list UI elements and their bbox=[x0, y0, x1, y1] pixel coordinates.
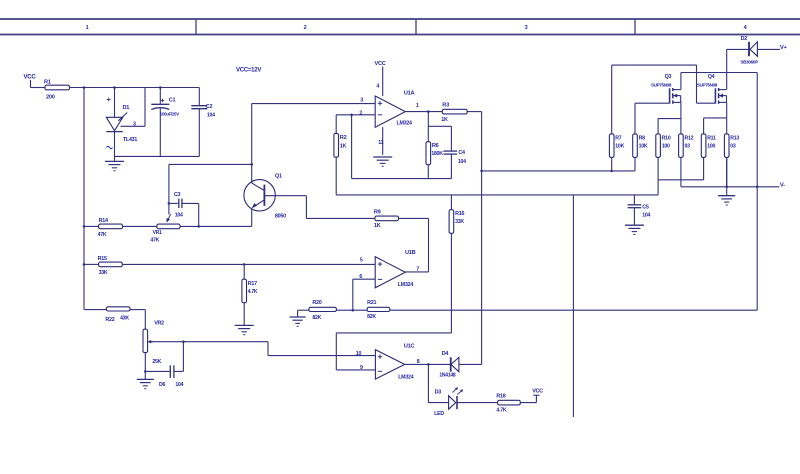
svg-text:D1: D1 bbox=[123, 105, 130, 111]
wire bbox=[428, 125, 451, 127]
svg-text:R3: R3 bbox=[442, 102, 449, 108]
wire bbox=[267, 342, 269, 356]
svg-text:LM324: LM324 bbox=[398, 282, 414, 288]
svg-text:1K: 1K bbox=[340, 144, 347, 150]
svg-text:7: 7 bbox=[416, 266, 419, 272]
transistor Q1 8050 bbox=[244, 174, 286, 220]
resistor R16 bbox=[449, 195, 464, 333]
svg-text:R1: R1 bbox=[44, 80, 51, 86]
zener reference D1 TL431 bbox=[106, 98, 137, 149]
svg-text:D2: D2 bbox=[741, 36, 748, 42]
wire bbox=[390, 309, 757, 311]
wire bbox=[399, 217, 429, 219]
svg-text:47K: 47K bbox=[98, 232, 107, 238]
resistor R13 bbox=[724, 134, 739, 158]
wire bbox=[681, 186, 780, 188]
wire bbox=[634, 103, 636, 134]
svg-text:R6: R6 bbox=[432, 143, 439, 149]
wire bbox=[405, 363, 451, 365]
wire bbox=[680, 73, 682, 90]
wire bbox=[123, 225, 157, 227]
svg-text:10K: 10K bbox=[639, 144, 648, 150]
wire bbox=[680, 157, 682, 186]
junction bbox=[610, 170, 613, 173]
wire bbox=[658, 118, 681, 120]
svg-text:100uF/25V: 100uF/25V bbox=[160, 112, 179, 117]
svg-text:R18: R18 bbox=[496, 394, 505, 400]
svg-text:VCC: VCC bbox=[532, 389, 543, 395]
svg-text:VCC=12V: VCC=12V bbox=[236, 67, 261, 73]
wire bbox=[405, 271, 428, 273]
resistor R9 bbox=[374, 209, 399, 229]
svg-text:U1C: U1C bbox=[404, 343, 415, 349]
wire bbox=[428, 218, 430, 272]
wire bbox=[353, 278, 375, 280]
wire bbox=[336, 369, 375, 371]
svg-text:LM324: LM324 bbox=[397, 121, 413, 127]
frame divider tick 3 bbox=[634, 19, 636, 35]
wire bbox=[657, 119, 659, 134]
wire bbox=[572, 195, 574, 417]
frame divider tick 1 bbox=[195, 19, 197, 35]
svg-text:U1A: U1A bbox=[404, 90, 415, 96]
svg-text:V+: V+ bbox=[780, 45, 788, 51]
wire bbox=[726, 49, 728, 89]
wire bbox=[756, 187, 758, 310]
resistor R7 bbox=[609, 134, 624, 158]
wire bbox=[144, 310, 146, 330]
wire bbox=[657, 180, 659, 195]
wire bbox=[335, 333, 337, 370]
resistor R15 bbox=[98, 256, 123, 276]
wire bbox=[336, 309, 367, 311]
wire bbox=[697, 102, 716, 104]
junction bbox=[159, 86, 162, 89]
svg-text:VR2: VR2 bbox=[154, 321, 164, 327]
junction bbox=[144, 370, 147, 373]
svg-text:R22: R22 bbox=[105, 317, 114, 323]
junction bbox=[725, 186, 728, 189]
svg-text:104: 104 bbox=[175, 382, 183, 388]
wire bbox=[84, 309, 106, 311]
wire bbox=[83, 88, 85, 310]
junction bbox=[480, 170, 483, 173]
svg-text:25K: 25K bbox=[152, 359, 161, 365]
svg-text:47K: 47K bbox=[150, 237, 159, 243]
svg-text:1K: 1K bbox=[374, 223, 381, 229]
svg-text:LM324: LM324 bbox=[398, 375, 414, 381]
svg-text:C5: C5 bbox=[642, 204, 649, 210]
wire bbox=[180, 225, 252, 227]
wire bbox=[336, 114, 375, 116]
potentiometer VR2 bbox=[143, 321, 164, 366]
junction bbox=[182, 340, 185, 343]
svg-text:C3: C3 bbox=[174, 192, 181, 198]
wire bbox=[182, 342, 184, 372]
wire bbox=[681, 72, 757, 74]
resistor R18 bbox=[496, 394, 520, 414]
svg-text:1N4148: 1N4148 bbox=[439, 373, 455, 379]
svg-text:3: 3 bbox=[525, 25, 528, 31]
ground bbox=[373, 156, 392, 158]
svg-text:104: 104 bbox=[642, 212, 650, 218]
wire bbox=[114, 88, 116, 118]
svg-text:C4: C4 bbox=[458, 150, 465, 156]
svg-text:VCC: VCC bbox=[375, 61, 386, 67]
resistor R22 bbox=[105, 307, 130, 323]
junction bbox=[83, 86, 86, 89]
wire bbox=[144, 88, 146, 127]
junction bbox=[756, 186, 759, 189]
svg-text:D6: D6 bbox=[159, 382, 165, 388]
junction bbox=[427, 110, 430, 113]
node VCC (input) bbox=[24, 75, 37, 88]
wire bbox=[611, 157, 613, 171]
svg-text:4.7K: 4.7K bbox=[248, 289, 258, 295]
svg-text:R21: R21 bbox=[367, 300, 376, 306]
svg-text:1K: 1K bbox=[441, 117, 448, 123]
capacitor C1 bbox=[151, 88, 179, 157]
svg-text:03: 03 bbox=[730, 144, 736, 150]
op-amp U1C LM324 bbox=[375, 343, 414, 380]
LED D3 bbox=[434, 387, 463, 417]
svg-text:SB3060P: SB3060P bbox=[740, 60, 758, 65]
svg-text:Q4: Q4 bbox=[708, 74, 715, 80]
diode D2 SB3060P bbox=[740, 36, 758, 65]
svg-text:82K: 82K bbox=[367, 314, 376, 320]
svg-text:D4: D4 bbox=[442, 351, 449, 357]
wire bbox=[251, 104, 253, 183]
wire bbox=[611, 65, 613, 134]
resistor R1 bbox=[44, 80, 70, 101]
wire bbox=[757, 48, 780, 50]
wire bbox=[382, 127, 384, 155]
svg-text:R16: R16 bbox=[455, 211, 464, 217]
ground bbox=[625, 224, 644, 226]
wire bbox=[144, 353, 146, 372]
resistor R11 bbox=[701, 134, 716, 158]
svg-text:104: 104 bbox=[458, 159, 466, 165]
resistor R17 bbox=[242, 264, 258, 325]
svg-text:104: 104 bbox=[207, 112, 215, 118]
svg-text:10: 10 bbox=[356, 351, 362, 357]
svg-text:R11: R11 bbox=[707, 135, 716, 141]
resistor R12 bbox=[679, 134, 694, 158]
frame divider tick 2 bbox=[415, 19, 417, 35]
svg-text:R17: R17 bbox=[248, 281, 257, 287]
wire bbox=[121, 125, 146, 127]
svg-text:33K: 33K bbox=[455, 219, 464, 225]
svg-text:8050: 8050 bbox=[275, 213, 286, 219]
junction bbox=[250, 163, 253, 166]
svg-text:3: 3 bbox=[360, 97, 363, 103]
capacitor C4 bbox=[443, 126, 466, 178]
svg-text:2: 2 bbox=[304, 25, 307, 31]
svg-text:V-: V- bbox=[780, 182, 785, 188]
wire bbox=[481, 112, 483, 365]
svg-text:R13: R13 bbox=[730, 135, 739, 141]
resistor R10 bbox=[656, 134, 671, 158]
border frame top line bbox=[0, 18, 800, 20]
wire bbox=[727, 48, 749, 50]
wire bbox=[635, 102, 669, 104]
svg-text:VR1: VR1 bbox=[153, 230, 162, 236]
svg-text:43K: 43K bbox=[120, 316, 129, 322]
wire bbox=[459, 363, 482, 365]
diode D4 1N4148 bbox=[439, 351, 459, 379]
wire bbox=[150, 341, 269, 343]
junction bbox=[197, 225, 200, 228]
wire bbox=[634, 157, 636, 171]
ground bbox=[137, 371, 154, 388]
wire bbox=[252, 103, 376, 105]
wire bbox=[84, 225, 99, 227]
wire bbox=[680, 102, 682, 133]
wire bbox=[298, 309, 309, 311]
wire bbox=[145, 370, 170, 372]
svg-text:U1B: U1B bbox=[405, 250, 416, 256]
resistor R14 bbox=[98, 218, 123, 238]
svg-text:4: 4 bbox=[376, 84, 379, 90]
wire bbox=[726, 157, 728, 186]
wire bbox=[122, 263, 375, 265]
svg-text:Q3: Q3 bbox=[665, 74, 672, 80]
wire bbox=[306, 217, 375, 219]
capacitor C2 bbox=[191, 88, 215, 157]
svg-text:SUP75N08: SUP75N08 bbox=[697, 82, 718, 87]
svg-text:104: 104 bbox=[175, 212, 183, 218]
svg-text:82K: 82K bbox=[312, 315, 321, 321]
junction bbox=[427, 363, 430, 366]
resistor R8 bbox=[633, 134, 648, 158]
wire bbox=[305, 196, 307, 219]
svg-text:D3: D3 bbox=[435, 390, 442, 396]
resistor R20 bbox=[309, 300, 337, 321]
svg-text:VCC: VCC bbox=[24, 75, 37, 81]
svg-text:10K: 10K bbox=[615, 144, 624, 150]
resistor R2 bbox=[334, 115, 347, 195]
wire bbox=[84, 263, 99, 265]
wire bbox=[657, 157, 659, 179]
svg-text:9: 9 bbox=[360, 365, 363, 371]
wire bbox=[520, 402, 536, 404]
junction bbox=[83, 263, 86, 266]
border frame inner line bbox=[0, 34, 800, 36]
svg-text:1: 1 bbox=[86, 25, 89, 31]
svg-text:4.7K: 4.7K bbox=[496, 408, 506, 414]
node VCC (U1A pin4) bbox=[375, 61, 386, 96]
svg-text:R12: R12 bbox=[685, 135, 694, 141]
wire bbox=[427, 364, 429, 402]
wire bbox=[70, 87, 200, 89]
svg-text:R2: R2 bbox=[340, 135, 347, 141]
ground bbox=[718, 187, 735, 205]
svg-text:TL431: TL431 bbox=[123, 137, 137, 143]
svg-text:R9: R9 bbox=[374, 209, 381, 215]
wiper of VR1 bbox=[167, 203, 171, 222]
wire bbox=[756, 73, 758, 187]
svg-text:180K: 180K bbox=[431, 151, 443, 157]
svg-text:03: 03 bbox=[685, 144, 691, 150]
svg-text:R7: R7 bbox=[615, 135, 621, 141]
MOSFET Q4 SUP75N08 bbox=[697, 74, 727, 104]
wire bbox=[726, 102, 728, 186]
wire bbox=[31, 87, 46, 89]
potentiometer VR1 bbox=[150, 224, 180, 243]
ground bbox=[235, 324, 254, 326]
svg-text:C1: C1 bbox=[169, 98, 176, 104]
svg-text:200: 200 bbox=[46, 95, 55, 101]
svg-text:33K: 33K bbox=[99, 270, 108, 276]
junction bbox=[168, 202, 171, 205]
resistor R6 bbox=[426, 126, 443, 178]
wire bbox=[696, 65, 698, 103]
wire bbox=[115, 155, 200, 157]
wire bbox=[457, 402, 498, 404]
wire bbox=[130, 309, 145, 311]
svg-text:C2: C2 bbox=[206, 104, 213, 110]
junction bbox=[113, 86, 116, 89]
wire bbox=[336, 194, 658, 196]
wire bbox=[268, 355, 375, 357]
wire bbox=[482, 170, 635, 172]
svg-text:100: 100 bbox=[662, 144, 670, 150]
capacitor D6 bbox=[159, 365, 184, 388]
capacitor C3 bbox=[169, 192, 199, 226]
op-amp U1B LM324 bbox=[375, 250, 415, 288]
wire bbox=[612, 64, 697, 66]
svg-text:2: 2 bbox=[359, 111, 362, 117]
wire bbox=[703, 157, 705, 179]
svg-text:R14: R14 bbox=[99, 218, 108, 224]
node VCC (R18) bbox=[532, 389, 543, 403]
svg-text:LED: LED bbox=[434, 411, 444, 417]
junction bbox=[83, 225, 86, 228]
wire bbox=[428, 402, 448, 404]
wire bbox=[264, 195, 306, 197]
wire bbox=[168, 164, 170, 203]
wire bbox=[704, 117, 727, 119]
op-amp U1A LM324 bbox=[375, 90, 414, 127]
svg-text:100: 100 bbox=[707, 144, 715, 150]
resistor R3 bbox=[441, 102, 467, 123]
wire bbox=[467, 111, 481, 113]
junction bbox=[352, 309, 355, 312]
resistor R21 bbox=[367, 300, 390, 320]
wire bbox=[352, 279, 354, 310]
wire bbox=[251, 208, 253, 227]
capacitor C5 bbox=[628, 195, 651, 225]
svg-text:1: 1 bbox=[416, 103, 419, 109]
svg-text:SUP75N08: SUP75N08 bbox=[651, 82, 672, 87]
wire bbox=[427, 112, 429, 127]
wire bbox=[703, 118, 705, 134]
svg-text:Q1: Q1 bbox=[275, 174, 282, 180]
junction bbox=[243, 263, 246, 266]
wire bbox=[336, 332, 451, 334]
wire bbox=[405, 111, 442, 113]
wire bbox=[352, 178, 452, 180]
wire bbox=[169, 163, 252, 165]
svg-text:R8: R8 bbox=[639, 135, 645, 141]
wire bbox=[351, 115, 353, 179]
MOSFET Q3 SUP75N08 bbox=[651, 74, 681, 104]
svg-text:R15: R15 bbox=[98, 256, 107, 262]
ground bbox=[290, 310, 306, 326]
svg-text:R10: R10 bbox=[662, 135, 671, 141]
wire bbox=[114, 132, 116, 157]
wire bbox=[658, 179, 704, 181]
ground bbox=[105, 156, 124, 170]
junction bbox=[350, 114, 353, 117]
svg-text:R20: R20 bbox=[312, 300, 321, 306]
svg-text:5: 5 bbox=[360, 258, 363, 264]
